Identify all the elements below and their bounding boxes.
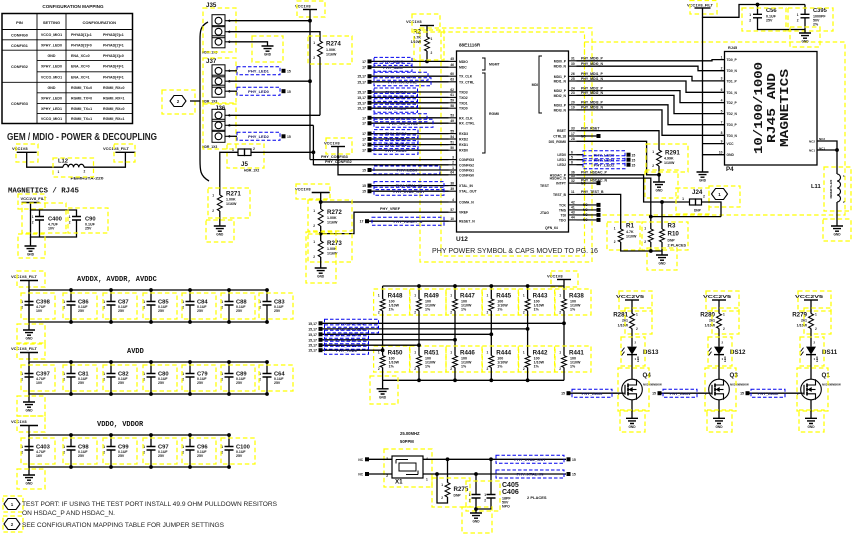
svg-text:1%: 1% bbox=[497, 365, 503, 369]
svg-text:2: 2 bbox=[313, 56, 315, 60]
svg-text:2 PLACES: 2 PLACES bbox=[527, 495, 547, 500]
svg-text:25: 25 bbox=[571, 77, 575, 81]
resistor R445 bbox=[489, 284, 493, 288]
svg-text:2: 2 bbox=[721, 67, 723, 71]
svg-text:15: 15 bbox=[572, 458, 576, 462]
ground (P4 pin10) bbox=[697, 172, 709, 177]
header J35 bbox=[212, 15, 225, 27]
svg-text:XPHY_LED1: XPHY_LED1 bbox=[41, 107, 62, 111]
svg-text:25V: 25V bbox=[78, 454, 85, 458]
wire J5.1 to R271 bbox=[220, 152, 238, 195]
resistor R280 bbox=[717, 314, 722, 329]
svg-text:17: 17 bbox=[362, 116, 366, 120]
wire bbox=[631, 400, 633, 419]
ground (AVDDX, AVDDR, AVDDC) bbox=[23, 330, 35, 335]
svg-text:CONFIG2: CONFIG2 bbox=[11, 65, 28, 69]
capacitor C395 bbox=[801, 14, 810, 17]
svg-text:RXD1: RXD1 bbox=[459, 143, 468, 147]
svg-text:NX3008NBKW: NX3008NBKW bbox=[643, 383, 662, 387]
svg-text:2: 2 bbox=[523, 367, 525, 371]
wire XTAL_IN line bbox=[423, 473, 566, 475]
svg-text:GND: GND bbox=[699, 179, 707, 183]
svg-text:J24: J24 bbox=[692, 189, 703, 196]
svg-text:PHY_XTAL_OUT: PHY_XTAL_OUT bbox=[514, 457, 546, 462]
svg-text:15: 15 bbox=[287, 135, 291, 139]
svg-text:1: 1 bbox=[431, 37, 433, 41]
svg-text:RGMII_RX=0: RGMII_RX=0 bbox=[103, 86, 124, 90]
svg-text:ENA_XC=1: ENA_XC=1 bbox=[71, 75, 90, 79]
wire bus bbox=[29, 353, 267, 363]
svg-text:44: 44 bbox=[571, 216, 575, 220]
svg-text:15: 15 bbox=[632, 158, 636, 162]
svg-text:25V: 25V bbox=[158, 454, 165, 458]
wire PHY_MDI3_P bbox=[577, 105, 725, 125]
svg-text:Q3: Q3 bbox=[730, 372, 739, 379]
svg-text:15,17: 15,17 bbox=[357, 91, 366, 95]
resistor R443 bbox=[526, 284, 530, 288]
capacitor C403 bbox=[28, 435, 30, 447]
svg-text:GND: GND bbox=[715, 425, 723, 429]
capacitor C80 bbox=[150, 362, 152, 374]
svg-text:MDI3_P: MDI3_P bbox=[554, 103, 567, 107]
svg-text:32: 32 bbox=[571, 179, 575, 183]
ground (R1/R3/R10) bbox=[656, 255, 668, 260]
wire PHY_MDI1_N bbox=[577, 81, 725, 92]
wire PHY_MDI2_P bbox=[577, 91, 725, 103]
svg-text:CONFIG3: CONFIG3 bbox=[459, 158, 474, 162]
svg-text:LED0: LED0 bbox=[557, 153, 566, 157]
net label PHY_LED2 (U12) bbox=[577, 164, 584, 166]
svg-text:2: 2 bbox=[487, 367, 489, 371]
svg-text:TX_CTRL: TX_CTRL bbox=[459, 80, 474, 84]
svg-text:25V: 25V bbox=[118, 309, 125, 313]
svg-text:2: 2 bbox=[313, 224, 315, 228]
capacitor C64 bbox=[266, 362, 268, 374]
svg-text:CONFIG0: CONFIG0 bbox=[11, 34, 28, 38]
svg-text:MGMT: MGMT bbox=[489, 63, 501, 67]
wire J24.2 bbox=[702, 202, 722, 217]
svg-text:TXD0: TXD0 bbox=[459, 107, 468, 111]
LED DS11 bbox=[806, 347, 816, 355]
resistor R438 bbox=[563, 286, 565, 299]
svg-text:LED: LED bbox=[815, 356, 819, 362]
capacitor C87 bbox=[110, 290, 112, 302]
svg-text:MDIO: MDIO bbox=[459, 60, 468, 64]
svg-text:PHY_TEST_B: PHY_TEST_B bbox=[581, 190, 604, 194]
svg-text:NC: NC bbox=[358, 473, 363, 477]
capacitor C85 bbox=[150, 290, 152, 302]
svg-text:1/10W: 1/10W bbox=[618, 324, 629, 328]
svg-text:TEST: TEST bbox=[540, 184, 550, 188]
svg-text:1: 1 bbox=[58, 170, 60, 174]
wire bbox=[27, 152, 63, 167]
wire J37.1 bbox=[228, 70, 237, 72]
svg-text:1: 1 bbox=[815, 313, 817, 317]
wire J36.1 to R274 bottom bbox=[228, 114, 320, 116]
big yellow box (PHY section) bbox=[420, 28, 592, 262]
resistor R291 bbox=[657, 150, 662, 166]
wire column 4 bbox=[490, 311, 492, 356]
callout 1 (test port) bbox=[712, 189, 728, 200]
wire DIS_RGMII strap bbox=[577, 141, 660, 175]
svg-text:GND: GND bbox=[317, 275, 325, 279]
wire bbox=[718, 300, 720, 314]
svg-text:PIN: PIN bbox=[16, 20, 23, 25]
net label PHY_LED0 (J37.3) bbox=[237, 87, 280, 95]
net label PHY_LED0 (U12) bbox=[577, 154, 584, 156]
svg-text:25V: 25V bbox=[197, 309, 204, 313]
wire bbox=[703, 5, 806, 18]
svg-text:25V: 25V bbox=[274, 381, 281, 385]
svg-text:17: 17 bbox=[362, 122, 366, 126]
wire caps to gnd bbox=[758, 18, 806, 30]
svg-text:1%: 1% bbox=[570, 308, 576, 312]
svg-text:8: 8 bbox=[721, 131, 723, 135]
resistor R442 bbox=[525, 356, 530, 368]
LED DS13 bbox=[627, 347, 637, 355]
svg-text:15,17: 15,17 bbox=[308, 338, 317, 342]
svg-text:46: 46 bbox=[450, 63, 454, 67]
svg-text:CONFIGURATION: CONFIGURATION bbox=[83, 20, 117, 25]
svg-text:PHY_MDC: PHY_MDC bbox=[383, 65, 403, 70]
svg-text:45: 45 bbox=[450, 57, 454, 61]
svg-text:HSDAC_N: HSDAC_N bbox=[550, 177, 567, 181]
svg-text:1: 1 bbox=[313, 240, 315, 244]
wire J35.3 to GND bbox=[228, 42, 268, 46]
capacitor C405 bbox=[475, 474, 477, 495]
svg-text:17: 17 bbox=[362, 132, 366, 136]
wire PHY_RSET bbox=[577, 131, 660, 150]
wire bbox=[320, 257, 322, 268]
svg-text:2: 2 bbox=[523, 311, 525, 315]
svg-text:15,17: 15,17 bbox=[357, 80, 366, 84]
svg-text:GND: GND bbox=[264, 53, 272, 57]
svg-text:15,17: 15,17 bbox=[308, 344, 317, 348]
svg-text:15,17: 15,17 bbox=[308, 327, 317, 331]
wire J37.3 bbox=[228, 90, 237, 92]
svg-text:2: 2 bbox=[450, 367, 452, 371]
svg-text:J5: J5 bbox=[241, 161, 248, 168]
wire termination top bus bbox=[563, 280, 565, 287]
svg-text:RGMII_RX=0: RGMII_RX=0 bbox=[103, 107, 124, 111]
wire bbox=[320, 193, 322, 210]
svg-text:PHYAD[4]=1: PHYAD[4]=1 bbox=[103, 65, 124, 69]
svg-text:DNP: DNP bbox=[454, 494, 462, 498]
net label PHY_LED1 (U12) bbox=[577, 159, 584, 161]
wire CONFIG2 chain down bbox=[312, 125, 314, 165]
svg-text:PHY_RXD0: PHY_RXD0 bbox=[385, 148, 407, 153]
svg-text:TXD2: TXD2 bbox=[459, 96, 468, 100]
svg-text:RGMII_TX=1: RGMII_TX=1 bbox=[71, 107, 92, 111]
wire PHY_MDI2_N bbox=[577, 95, 725, 113]
svg-text:VCC1V8_FILT: VCC1V8_FILT bbox=[103, 146, 129, 151]
svg-text:2: 2 bbox=[84, 170, 86, 174]
svg-text:1/10W: 1/10W bbox=[664, 161, 675, 165]
svg-text:PHY_MDI0_P: PHY_MDI0_P bbox=[581, 57, 603, 61]
wire bbox=[382, 367, 384, 380]
svg-text:HDR_1X2: HDR_1X2 bbox=[244, 169, 259, 173]
svg-text:ENA_XC=0: ENA_XC=0 bbox=[71, 65, 90, 69]
resistor R451 bbox=[417, 356, 422, 368]
svg-text:P4: P4 bbox=[726, 166, 734, 173]
svg-text:PHYAD[0]=1: PHYAD[0]=1 bbox=[103, 33, 124, 37]
capacitor C81 bbox=[70, 362, 72, 374]
svg-text:VCC1V8: VCC1V8 bbox=[547, 274, 563, 279]
capacitor C79 bbox=[189, 362, 191, 374]
wire column 3 bbox=[454, 311, 456, 356]
svg-text:TD0_N: TD0_N bbox=[727, 69, 738, 73]
wire bbox=[454, 367, 456, 380]
svg-text:R443: R443 bbox=[533, 293, 548, 300]
wire bbox=[563, 367, 565, 380]
svg-text:RGMII_RX=1: RGMII_RX=1 bbox=[103, 97, 124, 101]
svg-text:TD1_N: TD1_N bbox=[727, 91, 738, 95]
svg-text:XPHY_LED0: XPHY_LED0 bbox=[41, 65, 62, 69]
svg-text:15: 15 bbox=[632, 153, 636, 157]
svg-text:1.00K: 1.00K bbox=[226, 198, 236, 202]
svg-text:GND: GND bbox=[379, 395, 387, 399]
svg-text:1%: 1% bbox=[534, 365, 540, 369]
svg-text:1: 1 bbox=[69, 215, 71, 219]
svg-text:1: 1 bbox=[212, 194, 214, 198]
svg-text:VCC2V5: VCC2V5 bbox=[616, 294, 645, 299]
svg-text:1%: 1% bbox=[461, 365, 467, 369]
svg-text:MDI3_N: MDI3_N bbox=[554, 108, 567, 112]
svg-text:RXD0: RXD0 bbox=[459, 149, 468, 153]
wire bbox=[718, 355, 720, 380]
svg-text:31: 31 bbox=[571, 57, 575, 61]
svg-text:VCC1V8_FILT: VCC1V8_FILT bbox=[21, 196, 47, 201]
net label PHY_LED1 (J37.1) bbox=[237, 67, 280, 75]
svg-text:19: 19 bbox=[571, 106, 575, 110]
svg-text:1: 1 bbox=[523, 294, 525, 298]
wire bbox=[527, 367, 529, 380]
U12 left pins bbox=[449, 60, 457, 62]
svg-text:2: 2 bbox=[559, 311, 561, 315]
svg-text:VCC1V8: VCC1V8 bbox=[295, 187, 311, 192]
svg-text:COMA_N: COMA_N bbox=[459, 201, 474, 205]
svg-text:25V: 25V bbox=[274, 309, 281, 313]
svg-text:1%: 1% bbox=[425, 365, 431, 369]
capacitor C98 bbox=[70, 435, 72, 447]
svg-text:2: 2 bbox=[487, 311, 489, 315]
svg-text:TX_CLK: TX_CLK bbox=[459, 75, 473, 79]
svg-text:DNP: DNP bbox=[668, 239, 676, 243]
resistor R448 bbox=[382, 286, 384, 299]
svg-text:1: 1 bbox=[414, 294, 416, 298]
svg-text:PHY_LED1: PHY_LED1 bbox=[248, 68, 269, 73]
svg-text:TD2_P: TD2_P bbox=[727, 101, 738, 105]
svg-text:GND: GND bbox=[472, 520, 480, 524]
wire J36.2 to CONFIG2 chain bbox=[228, 124, 313, 126]
svg-text:SEE CONFIGURATION MAPPING TABL: SEE CONFIGURATION MAPPING TABLE FOR JUMP… bbox=[22, 522, 224, 529]
wire R274 to J36.1 bbox=[319, 57, 321, 115]
svg-text:25V: 25V bbox=[78, 381, 85, 385]
svg-text:RGMII_TX=0: RGMII_TX=0 bbox=[71, 97, 92, 101]
svg-text:25V: 25V bbox=[236, 381, 243, 385]
svg-text:15: 15 bbox=[287, 69, 291, 73]
svg-text:1: 1 bbox=[450, 294, 452, 298]
svg-text:2: 2 bbox=[378, 311, 380, 315]
wire bbox=[631, 329, 633, 347]
svg-text:R274: R274 bbox=[326, 41, 341, 48]
U12 group brackets bbox=[482, 58, 485, 70]
svg-text:CONFIG0: CONFIG0 bbox=[459, 173, 474, 177]
svg-text:2: 2 bbox=[313, 255, 315, 259]
brace (jumper group) bbox=[200, 22, 209, 181]
svg-text:PHYAD[3]=0: PHYAD[3]=0 bbox=[71, 43, 92, 47]
resistor R10 bbox=[661, 202, 663, 229]
svg-text:GND: GND bbox=[25, 482, 33, 486]
svg-text:38: 38 bbox=[450, 181, 454, 185]
svg-text:QFN_64: QFN_64 bbox=[545, 226, 558, 230]
svg-text:1: 1 bbox=[426, 478, 428, 482]
svg-text:NC1: NC1 bbox=[809, 149, 815, 153]
svg-text:10: 10 bbox=[450, 217, 454, 221]
svg-text:C56: C56 bbox=[766, 8, 777, 14]
svg-text:CTRL18: CTRL18 bbox=[553, 135, 566, 139]
capacitor C406 bbox=[490, 459, 492, 494]
svg-text:R444: R444 bbox=[496, 350, 511, 357]
svg-text:RXD2: RXD2 bbox=[459, 138, 468, 142]
svg-text:62: 62 bbox=[450, 88, 454, 92]
svg-text:RXD3: RXD3 bbox=[459, 132, 468, 136]
svg-text:CONFIG1: CONFIG1 bbox=[11, 44, 28, 48]
svg-text:MDI1_P: MDI1_P bbox=[554, 75, 567, 79]
wire bbox=[39, 210, 41, 217]
svg-text:R438: R438 bbox=[569, 293, 584, 300]
svg-text:2: 2 bbox=[636, 327, 638, 331]
svg-text:11: 11 bbox=[571, 190, 575, 194]
svg-text:GND: GND bbox=[216, 233, 224, 237]
svg-text:PHYAD[4]=0: PHYAD[4]=0 bbox=[103, 54, 124, 58]
svg-text:6: 6 bbox=[571, 151, 573, 155]
svg-text:39: 39 bbox=[450, 187, 454, 191]
svg-text:PHY_XTAL_IN: PHY_XTAL_IN bbox=[517, 472, 544, 477]
capacitor C398 bbox=[28, 290, 30, 302]
svg-text:1: 1 bbox=[749, 13, 751, 17]
svg-text:5: 5 bbox=[721, 109, 723, 113]
capacitor C82 bbox=[110, 362, 112, 374]
svg-text:1: 1 bbox=[452, 166, 454, 170]
svg-text:PHY_CONFIG3: PHY_CONFIG3 bbox=[321, 155, 348, 159]
capacitor C90 bbox=[72, 217, 81, 221]
svg-text:15: 15 bbox=[652, 392, 656, 396]
svg-text:U12: U12 bbox=[456, 236, 468, 243]
svg-text:NPO: NPO bbox=[502, 505, 510, 509]
yellow box (RJ45 section) bbox=[585, 42, 846, 215]
svg-text:R446: R446 bbox=[460, 350, 475, 357]
svg-text:4: 4 bbox=[452, 198, 454, 202]
svg-text:GND: GND bbox=[801, 40, 809, 44]
wire bbox=[28, 322, 30, 330]
svg-text:1/10W: 1/10W bbox=[797, 324, 808, 328]
svg-text:1: 1 bbox=[487, 351, 489, 355]
capacitor C83 bbox=[266, 290, 268, 302]
wire bbox=[631, 300, 633, 314]
svg-text:VCC1V8_FILT: VCC1V8_FILT bbox=[11, 346, 37, 351]
wire PHY_MDI0_N bbox=[577, 66, 725, 71]
svg-text:L12: L12 bbox=[58, 158, 68, 164]
wire bbox=[31, 203, 77, 217]
capacitor C99 bbox=[110, 435, 112, 447]
svg-text:58: 58 bbox=[450, 104, 454, 108]
svg-text:Q1: Q1 bbox=[822, 372, 831, 379]
svg-text:PHY_TXD0: PHY_TXD0 bbox=[385, 106, 406, 111]
wire bbox=[28, 467, 30, 475]
svg-text:53: 53 bbox=[450, 114, 454, 118]
svg-text:NC: NC bbox=[358, 458, 363, 462]
svg-text:R271: R271 bbox=[226, 191, 241, 198]
svg-text:RGMII: RGMII bbox=[489, 112, 499, 116]
svg-text:2: 2 bbox=[644, 240, 646, 244]
wire bbox=[718, 329, 720, 347]
wire termination bottom bus bbox=[383, 379, 564, 381]
svg-text:2%: 2% bbox=[813, 23, 819, 27]
svg-text:59: 59 bbox=[450, 99, 454, 103]
svg-text:15,17: 15,17 bbox=[357, 101, 366, 105]
svg-text:1/16W: 1/16W bbox=[327, 221, 338, 225]
capacitor C88 bbox=[228, 290, 230, 302]
net label PHY_XTAL_IN (crystal) bbox=[496, 470, 564, 478]
svg-text:R451: R451 bbox=[424, 350, 439, 357]
svg-text:TD3_N: TD3_N bbox=[727, 134, 738, 138]
svg-text:4.7K: 4.7K bbox=[626, 230, 634, 234]
svg-text:MDI0_P: MDI0_P bbox=[554, 59, 567, 63]
svg-text:6: 6 bbox=[721, 88, 723, 92]
svg-text:NX3008NBKW: NX3008NBKW bbox=[822, 383, 841, 387]
svg-text:NX3008NBKW: NX3008NBKW bbox=[730, 383, 749, 387]
capacitor C100 bbox=[228, 435, 230, 447]
svg-text:MDC: MDC bbox=[459, 66, 467, 70]
svg-text:PHY_RX_CTRL: PHY_RX_CTRL bbox=[389, 121, 418, 126]
svg-text:15: 15 bbox=[362, 190, 366, 194]
svg-text:30: 30 bbox=[571, 62, 575, 66]
svg-text:GND: GND bbox=[655, 189, 663, 193]
svg-text:2: 2 bbox=[723, 327, 725, 331]
svg-text:35: 35 bbox=[571, 174, 575, 178]
capacitor C397 bbox=[28, 362, 30, 374]
svg-text:PHY_LED0: PHY_LED0 bbox=[248, 89, 269, 94]
svg-text:1: 1 bbox=[682, 197, 684, 201]
svg-text:PHY_LED2: PHY_LED2 bbox=[758, 391, 779, 396]
svg-text:7: 7 bbox=[721, 121, 723, 125]
svg-text:2 PLACES: 2 PLACES bbox=[668, 244, 687, 248]
svg-text:RGMII_RX=1: RGMII_RX=1 bbox=[103, 117, 124, 121]
svg-text:VREF: VREF bbox=[459, 211, 468, 215]
svg-text:1: 1 bbox=[469, 493, 471, 497]
wire bbox=[631, 355, 633, 380]
wire bbox=[718, 400, 720, 419]
svg-text:R272: R272 bbox=[327, 209, 342, 216]
wire bbox=[490, 367, 492, 380]
wire column 2 bbox=[418, 311, 420, 356]
svg-text:VCCO_MIO1: VCCO_MIO1 bbox=[41, 33, 62, 37]
svg-text:VCC1V8: VCC1V8 bbox=[11, 419, 27, 424]
svg-text:33: 33 bbox=[571, 127, 575, 131]
svg-text:R448: R448 bbox=[388, 293, 403, 300]
svg-text:17: 17 bbox=[362, 138, 366, 142]
wire bbox=[810, 400, 812, 419]
svg-text:2: 2 bbox=[212, 209, 214, 213]
ground (Q1) bbox=[805, 418, 817, 423]
svg-text:1: 1 bbox=[487, 294, 489, 298]
wire J5.2 to CONFIG2 chain bbox=[251, 151, 313, 153]
wire J35.2 to R274 bbox=[228, 32, 320, 41]
svg-text:LED1: LED1 bbox=[557, 158, 566, 162]
wire bbox=[658, 175, 660, 182]
svg-text:PHY_LED0: PHY_LED0 bbox=[582, 391, 603, 396]
